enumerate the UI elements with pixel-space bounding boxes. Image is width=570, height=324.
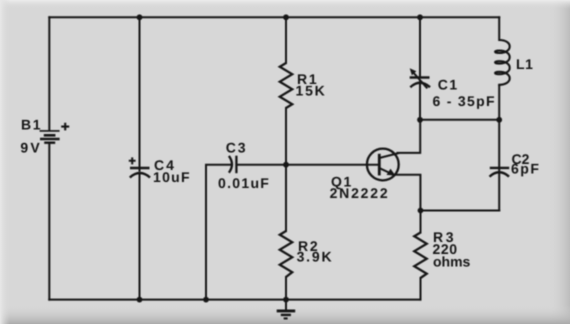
wire ground stub — [285, 300, 287, 310]
wire left rail lower — [48, 144, 50, 300]
wire C1 branch lower — [419, 81, 421, 120]
wire emitter — [394, 175, 421, 211]
svg-text:15K: 15K — [296, 82, 327, 98]
svg-text:2N2222: 2N2222 — [330, 185, 390, 201]
battery B1 — [40, 123, 70, 143]
wire C1 branch upper — [419, 17, 421, 76]
variable capacitor C1 — [410, 68, 430, 88]
svg-text:6 - 35pF: 6 - 35pF — [433, 93, 496, 109]
wire C2 branch upper — [498, 120, 500, 171]
wire C3 left branch — [206, 165, 230, 300]
wire C3 to base junction — [238, 164, 287, 166]
capacitor C3 — [229, 156, 237, 174]
resistor R1 — [280, 63, 292, 108]
wire base — [286, 164, 378, 166]
wire R1 R2 branch — [285, 17, 287, 299]
node tank left — [417, 117, 423, 123]
wire C2 branch lower — [498, 172, 500, 210]
svg-text:L1: L1 — [516, 56, 534, 72]
node top rail C1 — [417, 14, 423, 20]
wire C4 branch lower — [139, 173, 141, 300]
wire emitter to C2 — [421, 210, 500, 212]
node bottom rail C3 — [203, 297, 209, 303]
node base junction — [283, 162, 289, 168]
wire L1 branch upper — [498, 17, 500, 40]
capacitor C2 — [490, 168, 510, 177]
wire R3 lower — [420, 278, 422, 300]
svg-text:ohms: ohms — [433, 254, 471, 270]
wire C4 branch upper — [139, 17, 141, 170]
node top rail R1 — [283, 14, 289, 20]
wire L1 branch lower — [498, 86, 500, 120]
wire tank bottom — [420, 119, 499, 121]
svg-text:C1: C1 — [438, 77, 459, 93]
node bottom rail ground — [283, 297, 289, 303]
wire top rail — [49, 16, 499, 18]
wire left rail upper — [48, 17, 50, 130]
svg-text:B1: B1 — [21, 117, 42, 133]
svg-text:C3: C3 — [226, 140, 248, 156]
capacitor C4 — [129, 157, 150, 177]
svg-text:3.9K: 3.9K — [297, 249, 334, 265]
node bottom rail C4 — [137, 297, 143, 303]
wire collector — [379, 120, 420, 158]
node emitter junction — [418, 208, 424, 214]
transistor Q1 — [367, 149, 399, 181]
svg-text:9V: 9V — [20, 140, 42, 156]
svg-text:0.01uF: 0.01uF — [218, 175, 270, 191]
resistor R2 — [280, 231, 292, 277]
svg-text:6pF: 6pF — [511, 160, 540, 176]
node tank right — [496, 117, 502, 123]
resistor R3 — [414, 233, 426, 279]
svg-text:10uF: 10uF — [153, 169, 191, 185]
wire bottom rail — [49, 299, 420, 301]
node top rail C4 — [137, 14, 143, 20]
inductor L1 — [495, 40, 510, 86]
ground — [277, 311, 296, 319]
wire R3 upper — [420, 211, 422, 233]
